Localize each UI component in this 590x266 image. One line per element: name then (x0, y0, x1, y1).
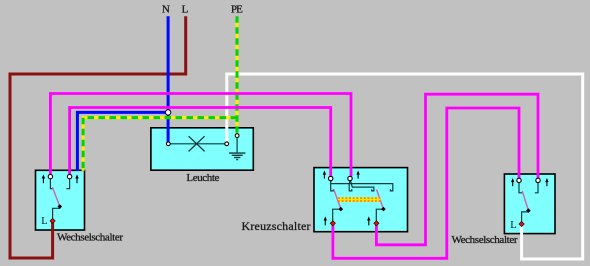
S1 terminal right (67, 174, 71, 178)
S2 L terminal (519, 222, 524, 227)
wire PE yellow base horizontal branch (83, 118, 237, 171)
wire L phase dark red (10, 16, 186, 258)
K lever left (334, 190, 341, 209)
K pivot right (381, 207, 386, 212)
wire magenta M1 S1 left terminal to K right terminal (50, 94, 351, 177)
svg-text:Wechselschalter: Wechselschalter (57, 231, 123, 243)
K cross link right terminal to inner right contact (351, 181, 374, 191)
earth/ground symbol (236, 137, 238, 152)
S1 terminal left (48, 174, 52, 178)
S2 pivot (526, 208, 531, 213)
K terminal top-left (329, 176, 333, 180)
svg-text:Leuchte: Leuchte (186, 172, 219, 184)
wire white lamp to S2 (227, 74, 583, 259)
S2 output path to L (522, 211, 529, 222)
wire magenta M3 K bottom-right to S2 right terminal (376, 94, 538, 245)
S1 L terminal (50, 218, 55, 223)
svg-text:Kreuzschalter: Kreuzschalter (242, 219, 311, 233)
K coupling bar (338, 197, 381, 202)
svg-text:N: N (162, 3, 170, 15)
S2 lever (522, 191, 528, 211)
wire magenta M2 S1 right terminal to K left terminal (70, 108, 331, 177)
cross switch box (Kreuzschalter) (314, 168, 408, 232)
S1 fixed contact left (50, 179, 53, 189)
K arrow bottom-right (367, 216, 370, 225)
K cross link left terminal to far right contact (331, 184, 393, 191)
wire N blue branch to S1 (77, 112, 168, 170)
svg-text:L: L (182, 3, 189, 15)
lamp X symbol (189, 136, 205, 151)
S1 pivot (58, 204, 63, 209)
K output left (333, 209, 341, 221)
K terminal bottom-left (330, 221, 335, 226)
S1 fixed contact right (66, 179, 69, 189)
S1 arrow left (42, 174, 45, 183)
lamp wire across (168, 143, 226, 145)
svg-text:L: L (41, 216, 47, 227)
wire magenta M4 K bottom-left to S2 left terminal (333, 108, 519, 258)
svg-text:PE: PE (231, 3, 243, 15)
S2 terminal right (536, 178, 540, 182)
S2 arrow right (545, 178, 548, 186)
lamp terminal left (166, 142, 170, 146)
right switch box (Wechselschalter 2) (504, 174, 555, 234)
K pivot left (339, 207, 344, 212)
left switch box (Wechselschalter 1) (36, 170, 85, 230)
K arrow top-right (356, 171, 359, 179)
K arrow bottom-left (324, 216, 327, 225)
lamp PE terminal (235, 134, 239, 138)
svg-text:Wechselschalter: Wechselschalter (452, 234, 518, 246)
K arrow top-left (323, 171, 326, 179)
K lever right (377, 190, 384, 209)
svg-text:L: L (510, 220, 516, 231)
K terminal top-right (348, 176, 352, 180)
wire PE green dash vertical (236, 16, 239, 134)
K contact drop from left terminal (331, 180, 334, 191)
lamp terminal right (225, 142, 229, 146)
node N junction (165, 110, 170, 115)
K contact drop from right terminal (349, 181, 352, 191)
S1 output path to L (53, 207, 60, 219)
S2 fixed contact right (535, 182, 538, 193)
S1 arrow right (75, 174, 78, 183)
wire PE green dash horizontal branch (83, 118, 237, 171)
S2 arrow left (511, 178, 514, 186)
K terminal bottom-right (374, 221, 379, 226)
K output right (376, 209, 383, 221)
S1 lever (52, 187, 59, 206)
wire PE yellow base vertical (236, 16, 239, 134)
S2 terminal left (517, 178, 521, 182)
S2 fixed contact left (519, 182, 522, 193)
wire N blue main (167, 16, 170, 143)
lamp box (Leuchte) (151, 128, 253, 170)
